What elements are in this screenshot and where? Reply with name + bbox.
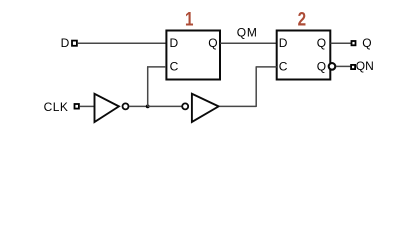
wire QM (latch1 Q to latch2 D) [220, 42, 277, 44]
latch U2 designator 2 [298, 8, 307, 30]
inverter U3 output bubble [123, 103, 129, 109]
wire to latch2 C (horizontal) [256, 66, 277, 68]
latch U1 box [166, 31, 220, 80]
svg-text:QM: QM [237, 26, 258, 40]
svg-text:C: C [279, 59, 288, 73]
wire bubble to terminal QN [336, 65, 351, 67]
svg-text:D: D [170, 36, 179, 50]
terminal CLK (input port square) [75, 104, 79, 109]
inverter U4 triangle (inverted-input buffer) [192, 94, 219, 122]
inverter U3 triangle [95, 94, 119, 122]
svg-text:1: 1 [185, 8, 194, 30]
terminal QN (output port square) [351, 65, 355, 69]
latch U2 box [277, 31, 331, 80]
svg-text:QN: QN [356, 59, 374, 73]
wire inverter1 output to junction [129, 105, 147, 107]
svg-text:2: 2 [298, 8, 307, 30]
wire D to latch 1 [78, 42, 166, 44]
latch U1 designator 1 [185, 8, 194, 30]
svg-text:D: D [279, 36, 288, 50]
wire up to latch2 C (vertical) [255, 67, 257, 107]
wire junction up to latch1 C (vertical) [147, 67, 149, 107]
svg-text:D: D [61, 36, 70, 50]
svg-text:Q: Q [208, 36, 217, 50]
svg-text:CLK: CLK [44, 100, 69, 114]
wire to latch1 C (horizontal) [147, 66, 166, 68]
inverter U4 input bubble [182, 103, 188, 109]
svg-text:Q: Q [362, 36, 371, 50]
terminal Q (output port square) [352, 41, 356, 45]
wire CLK to inverter 1 [80, 105, 95, 107]
latch U2 inversion bubble on lower Q output [329, 63, 336, 70]
svg-text:Q: Q [317, 59, 326, 73]
svg-text:C: C [170, 59, 179, 73]
wire inverter2 output right [220, 105, 257, 107]
wire latch2 Q to terminal Q [331, 42, 352, 44]
junction node dot [146, 105, 150, 109]
terminal D (input port square) [72, 41, 77, 46]
wire junction to inverter 2 [148, 105, 182, 107]
svg-text:Q: Q [317, 36, 326, 50]
